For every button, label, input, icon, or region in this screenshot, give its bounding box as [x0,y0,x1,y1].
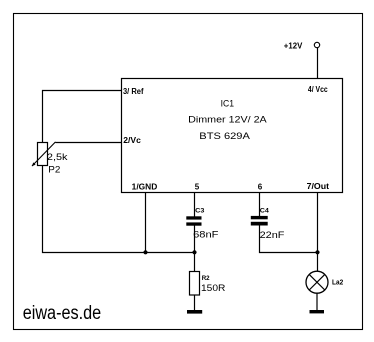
svg-text:4/ Vcc: 4/ Vcc [308,85,328,94]
svg-text:68nF: 68nF [193,229,219,240]
svg-text:BTS 629A: BTS 629A [199,131,250,142]
svg-text:P2: P2 [48,165,60,176]
svg-text:La2: La2 [332,279,343,286]
svg-text:3/ Ref: 3/ Ref [123,87,144,96]
svg-text:IC1: IC1 [221,99,234,110]
svg-text:eiwa-es.de: eiwa-es.de [23,303,102,324]
svg-text:6: 6 [258,183,263,192]
svg-text:C4: C4 [260,208,270,215]
svg-text:C3: C3 [195,207,205,214]
svg-text:1/GND: 1/GND [132,183,158,192]
svg-text:R2: R2 [202,275,210,282]
svg-text:Dimmer 12V/ 2A: Dimmer 12V/ 2A [188,115,267,126]
svg-text:+12V: +12V [284,42,303,51]
svg-text:2,5k: 2,5k [47,152,68,163]
svg-text:5: 5 [195,183,200,192]
svg-text:150R: 150R [201,283,226,294]
svg-text:22nF: 22nF [260,230,285,241]
svg-text:7/Out: 7/Out [307,182,330,191]
svg-text:2/Vc: 2/Vc [123,136,141,145]
